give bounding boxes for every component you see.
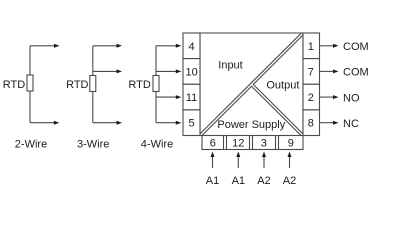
svg-text:Power Supply: Power Supply [217, 119, 285, 131]
pin box 12 [227, 136, 250, 150]
wire below pin 6 [212, 156, 214, 168]
resistor RTD 3-wire [90, 76, 96, 92]
svg-text:Output: Output [266, 80, 299, 92]
pin box 8 [303, 110, 320, 136]
svg-text:7: 7 [308, 66, 314, 78]
arrowhead COM 1 [333, 44, 339, 48]
arrowhead 4-wire pin10 [176, 69, 182, 73]
resistor RTD 2-wire [27, 75, 33, 91]
svg-text:COM: COM [343, 41, 369, 53]
wire pin 8 to NC [320, 122, 335, 124]
svg-text:5: 5 [189, 118, 195, 130]
svg-text:A1: A1 [232, 175, 245, 187]
2-wire top wire [30, 45, 55, 47]
wire pin 7 to COM [320, 70, 335, 72]
arrowhead 4-wire pin4 [176, 44, 182, 48]
arrowhead 4-wire pin11 [176, 95, 182, 99]
svg-text:Input: Input [218, 59, 242, 71]
arrowhead 4-wire pin5 [176, 121, 182, 125]
pin box 6 [202, 136, 224, 150]
svg-text:6: 6 [210, 138, 216, 150]
pin box 10 [183, 59, 200, 85]
arrowhead NO [333, 95, 339, 99]
svg-text:2: 2 [308, 92, 314, 104]
arrowhead 3-wire middle [117, 69, 123, 73]
pin box 4 [183, 33, 200, 59]
2-wire RTD vertical wire [29, 46, 31, 123]
module outer box [200, 33, 303, 136]
arrowhead COM 7 [333, 69, 339, 73]
svg-text:NC: NC [343, 118, 359, 130]
2-wire bottom wire [30, 122, 55, 124]
wire below pin 3 [263, 156, 265, 168]
resistor RTD 4-wire [153, 76, 159, 92]
arrowhead up pin 6 [211, 152, 215, 158]
3-wire top wire [93, 45, 118, 47]
svg-text:RTD: RTD [3, 79, 25, 91]
input section polygon [200, 33, 301, 134]
wire below pin 9 [289, 156, 291, 168]
svg-text:A2: A2 [283, 175, 296, 187]
svg-text:NO: NO [343, 92, 360, 104]
4-wire wire to pin 10 [156, 70, 177, 72]
3-wire RTD vertical wire [92, 46, 94, 123]
arrowhead 2-wire top [54, 44, 60, 48]
svg-text:RTD: RTD [128, 79, 150, 91]
arrowhead 3-wire bottom [117, 121, 123, 125]
3-wire middle wire [93, 70, 118, 72]
arrowhead up pin 3 [262, 152, 266, 158]
4-wire wire to pin 11 [156, 96, 177, 98]
svg-text:12: 12 [232, 138, 244, 150]
arrowhead up pin 9 [288, 152, 292, 158]
svg-text:4: 4 [189, 41, 195, 53]
pin box 2 [303, 84, 320, 110]
pin box 5 [183, 110, 200, 136]
output section polygon [253, 35, 303, 134]
svg-text:3: 3 [261, 138, 267, 150]
arrowhead 2-wire bottom [54, 121, 60, 125]
svg-text:9: 9 [288, 138, 294, 150]
4-wire wire to pin 4 [156, 45, 177, 47]
arrowhead up pin 12 [236, 152, 240, 158]
wire pin 1 to COM [320, 45, 335, 47]
pin box 7 [303, 59, 320, 85]
svg-text:10: 10 [185, 66, 197, 78]
3-wire bottom wire [93, 122, 118, 124]
pin box 9 [279, 136, 304, 150]
svg-text:COM: COM [343, 67, 369, 79]
pin box 3 [253, 136, 276, 150]
wire pin 2 to NO [320, 96, 335, 98]
svg-text:A2: A2 [257, 175, 270, 187]
pin box 1 [303, 33, 320, 59]
svg-text:8: 8 [308, 118, 314, 130]
svg-text:4-Wire: 4-Wire [141, 138, 173, 150]
bottom terminal row baseline [202, 149, 303, 151]
pin box 11 [183, 84, 200, 110]
arrowhead 3-wire top [117, 44, 123, 48]
svg-text:2-Wire: 2-Wire [15, 138, 47, 150]
svg-text:1: 1 [308, 41, 314, 53]
svg-text:A1: A1 [206, 175, 219, 187]
4-wire RTD vertical wire [155, 46, 157, 123]
power supply section polygon [202, 86, 301, 135]
4-wire wire to pin 5 [156, 122, 177, 124]
svg-text:RTD: RTD [66, 79, 88, 91]
svg-text:11: 11 [186, 92, 197, 104]
svg-text:3-Wire: 3-Wire [77, 138, 109, 150]
wire below pin 12 [237, 156, 239, 168]
arrowhead NC [333, 121, 339, 125]
